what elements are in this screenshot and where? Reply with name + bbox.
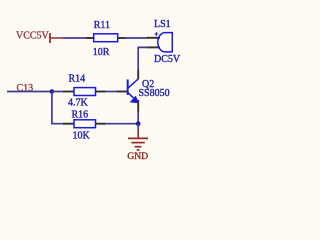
wire LS1 pin2 down to collector [138, 47, 147, 70]
junction node C13 [50, 89, 55, 94]
speaker LS1 plus polarity mark [155, 32, 159, 36]
wire C13 net [7, 91, 52, 93]
svg-text:R11: R11 [94, 20, 110, 31]
wire junction to R14 [52, 91, 64, 93]
transistor Q2 emitter arrow [131, 96, 139, 102]
wire emitter to junction [137, 112, 139, 124]
ground bar 1 [128, 137, 148, 139]
resistor R11 pin 2 [118, 37, 126, 39]
resistor R16 pin 1 [63, 123, 74, 125]
ground bar 3 [135, 146, 142, 148]
junction node emitter [136, 121, 141, 126]
resistor R11 body [94, 34, 118, 42]
resistor R14 body [74, 88, 96, 96]
svg-text:R14: R14 [69, 74, 86, 85]
resistor R11 pin 1 [86, 37, 94, 39]
svg-text:VCC5V: VCC5V [16, 31, 50, 42]
wire R16 to emitter junction [106, 123, 139, 125]
wire junction down to R16 row [52, 92, 64, 124]
resistor R14 pin 1 [63, 91, 74, 93]
transistor Q2 base pin [116, 91, 127, 93]
speaker LS1 pin 2 [147, 46, 160, 48]
transistor Q2 emitter diagonal [128, 93, 134, 98]
resistor R16 body [74, 120, 96, 128]
svg-text:SS8050: SS8050 [139, 88, 170, 99]
svg-text:10K: 10K [73, 130, 91, 141]
speaker LS1 pin 1 [147, 37, 160, 39]
wire R11 to LS1 [126, 37, 148, 39]
ground stem [137, 129, 139, 139]
transistor Q2 collector pin [137, 70, 139, 80]
svg-text:4.7K: 4.7K [68, 97, 89, 108]
svg-text:DC5V: DC5V [154, 54, 181, 65]
transistor Q2 emitter pin [137, 100, 139, 112]
speaker LS1 body [158, 33, 172, 52]
transistor Q2 collector diagonal [128, 79, 138, 88]
resistor R16 pin 2 [96, 123, 106, 125]
svg-text:GND: GND [127, 151, 148, 160]
wire VCC5V to R11 [64, 37, 87, 39]
power port VCC5V lead [50, 37, 64, 39]
transistor Q2 base bar [127, 80, 129, 96]
svg-text:LS1: LS1 [154, 19, 171, 30]
power port VCC5V bar [49, 33, 51, 43]
svg-text:10R: 10R [93, 47, 110, 58]
ground bar 2 [131, 142, 144, 144]
wire R14 to base [106, 91, 118, 93]
ground bar 4 [137, 149, 140, 151]
resistor R14 pin 2 [96, 91, 106, 93]
wire junction to ground [137, 124, 139, 129]
svg-text:R16: R16 [72, 109, 89, 120]
